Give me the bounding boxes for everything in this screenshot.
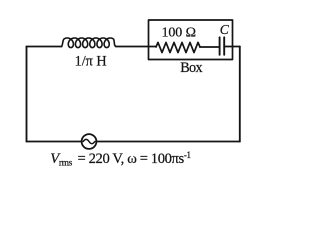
wire top left segment — [27, 46, 62, 48]
svg-text:100 Ω: 100 Ω — [162, 25, 196, 40]
inductor L1 coil — [62, 38, 117, 48]
ac source circle — [82, 134, 97, 149]
wire capacitor out to right corner — [224, 46, 240, 48]
svg-text:Box: Box — [180, 60, 202, 76]
wire resistor to capacitor — [200, 46, 220, 48]
capacitor C left plate — [219, 37, 221, 55]
svg-text:Vrms = 220 V, ω = 100πs-1: Vrms = 220 V, ω = 100πs-1 — [50, 150, 190, 169]
wire left vertical — [26, 47, 28, 142]
wire top from coil to box — [116, 46, 156, 48]
wire bottom — [27, 141, 240, 143]
capacitor C right plate — [223, 37, 225, 55]
resistor R 100 ohm zigzag — [156, 42, 200, 52]
box enclosure rectangle — [149, 20, 233, 60]
svg-text:C: C — [220, 22, 230, 37]
ac source sine wave — [83, 139, 95, 143]
wire right vertical — [239, 47, 241, 142]
svg-text:1/π H: 1/π H — [75, 54, 107, 70]
